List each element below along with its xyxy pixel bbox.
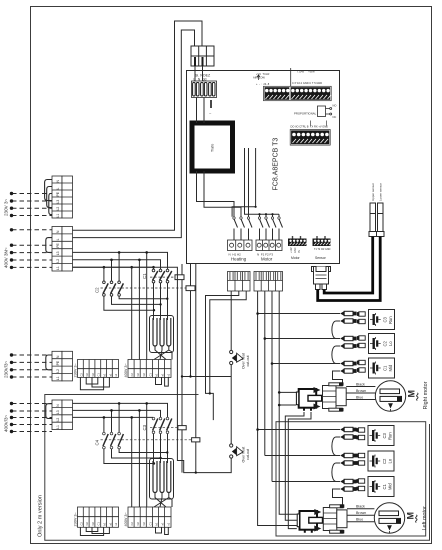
strip label divider [290,68,292,86]
svg-text:Run: Run [388,316,393,324]
svg-text:Right motor: Right motor [423,381,429,409]
strip cell labels [79,373,170,377]
spade C3L a [336,427,357,432]
svg-text:PROPORTIONAL: PROPORTIONAL [294,112,317,116]
svg-text:GND: GND [294,247,297,253]
sensor connector P3 [312,267,331,290]
svg-text:cut-out: cut-out [246,449,250,460]
jumper bracket X2 [46,238,52,253]
wire motor leads right [346,387,375,400]
connector left motor [297,504,347,533]
motor M1 right [375,381,405,411]
wire connR pins to connL [285,412,304,520]
wire branch C2L [265,455,336,457]
svg-text:L1: L1 [56,425,60,429]
plug heating [228,272,251,292]
heater element E1 [150,316,174,353]
capacitor box C3L Run [356,426,394,446]
svg-text:C1: C1 [97,373,101,377]
wire bus N [258,291,297,526]
fuse slots [193,83,215,97]
svg-text:Over heat: Over heat [242,447,246,463]
spade C3R b [336,319,357,324]
svg-text:C1: C1 [142,273,147,279]
svg-text:C1: C1 [382,483,387,489]
svg-text:NC: NC [333,115,337,119]
comb connector Sensor small [313,239,331,247]
wire heater1 X crossing [154,347,172,360]
svg-text:T.S/W +S/W: T.S/W +S/W [297,70,315,74]
wire fuse feeds [195,66,203,81]
wire C4 stairs to heater2 [104,449,167,464]
svg-text:C1: C1 [148,522,152,526]
svg-text:C3: C3 [382,432,387,438]
relay contacts PCB (heating group) [234,219,252,240]
svg-text:C2: C2 [79,373,83,377]
svg-text:C P 10.2 GND C T 5 GND: C P 10.2 GND C T 5 GND [292,81,322,85]
svg-text:DO I/O CTRL B TX RX +V GND: DO I/O CTRL B TX RX +V GND [291,125,329,129]
svg-text:C2: C2 [95,287,100,293]
wire sensor upper thick [324,237,373,294]
transformer T1 [192,123,233,171]
svg-text:Black: Black [356,505,365,509]
capacitor box C3 Run [357,310,395,330]
230V 3~ input wires [12,194,52,216]
wire C1L b to connL [333,489,343,507]
wire branch C3R [258,313,336,315]
svg-text:230V 3~: 230V 3~ [4,198,9,216]
svg-text:L2: L2 [56,369,60,373]
svg-text:230V 3~: 230V 3~ [74,511,78,526]
coil C3 [178,426,186,430]
terminal strip TS3 [290,130,330,146]
svg-text:L3: L3 [56,251,60,255]
svg-text:230V/3~: 230V/3~ [4,360,9,378]
dashed linkage C3 [150,427,178,429]
svg-text:Lower sensor: Lower sensor [379,183,383,201]
wire C1R b to connR [333,371,343,384]
svg-text:400V 3~: 400V 3~ [124,511,128,526]
svg-text:L: L [56,188,60,190]
svg-text:L2: L2 [56,418,60,422]
terminal block X2 (400V 3N~) [46,227,73,272]
wire bus F1 [264,291,266,456]
PCB outline [187,71,340,264]
svg-text:400V/3~: 400V/3~ [4,414,9,432]
wire C2 stairs to heater1 [104,296,167,310]
wire sensor break stub [210,100,212,108]
contactor C4 contacts [103,434,123,446]
svg-text:Mid: Mid [388,364,393,371]
wire C4 coil rail [195,264,197,473]
svg-text:L3: L3 [56,200,60,204]
svg-text:Lo: Lo [388,341,393,346]
contactor C3 contacts [153,419,172,431]
wire C2 feed drops [104,252,119,281]
dashed linkage C2 [101,287,186,289]
svg-text:Run: Run [388,432,393,440]
svg-text:Black: Black [356,382,365,386]
svg-text:C2: C2 [130,522,134,526]
plug motor [254,272,283,292]
spade C3L b [336,435,357,440]
wire PE rail [73,264,247,473]
svg-text:N2: N2 [85,522,89,526]
overheat cutout S3 [230,444,243,458]
svg-text:C2: C2 [79,522,83,526]
wire N rail [73,21,203,230]
jumper brackets X1 [45,180,52,201]
connector K1 pins [195,57,203,66]
svg-text:Blue: Blue [356,395,363,399]
micro text under combs [290,247,331,253]
svg-text:C2: C2 [130,373,134,377]
PCB micro labels row 1 [253,70,322,87]
svg-text:Left motor: Left motor [422,506,428,530]
spade C3R a [336,311,357,316]
spade C2R a [336,336,357,341]
wire loop C2L-C1L [332,463,336,482]
coil C4 [192,438,200,442]
wire loop C3R-C2R [332,321,336,339]
svg-text:M: M [407,390,417,398]
proportional switch S1 [318,106,332,117]
heater element E2 [150,459,174,500]
strip B terminals [128,360,171,378]
svg-text:Brown: Brown [356,511,366,515]
wire trafo primary [197,98,205,124]
wire bus F3 [279,291,297,514]
svg-text:+12V: +12V [290,247,293,253]
wire branch connR1 [279,391,296,393]
400V 3N~ input wires [12,230,52,268]
svg-text:N2: N2 [91,522,95,526]
svg-text:+ - : 24..8: + - : 24..8 [256,82,270,86]
capacitor box C2 Lo [357,334,395,354]
spade C2L b [336,461,357,466]
coil C2 [186,286,195,291]
svg-text:N2: N2 [85,373,89,377]
wire block4 phases to C3/C4/stripB2 [73,403,168,507]
svg-text:T1 T2 CR GND: T1 T2 CR GND [314,248,331,251]
strip A2 terminals [78,507,119,527]
svg-text:Lo: Lo [388,458,393,463]
svg-text:C2: C2 [383,340,388,346]
svg-text:PE: PE [56,243,60,248]
wire C3 to heater2 [154,434,168,463]
spade C1R b [336,369,357,374]
wire overheat line [230,291,232,444]
svg-text:N2: N2 [142,522,146,526]
relay contacts PCB (motor group) [260,219,283,240]
capacitor box C1 Mid [357,358,395,378]
spade C1L b [336,487,357,492]
svg-text:M: M [406,512,416,520]
svg-text:C1: C1 [97,522,101,526]
svg-text:C3: C3 [383,316,388,322]
svg-text:PE: PE [56,191,60,196]
svg-text:Only 2 m version: Only 2 m version [38,495,44,537]
plug heating pins [230,272,248,280]
svg-text:N2: N2 [136,522,140,526]
left motor box [276,422,426,536]
svg-text:Upper sensor: Upper sensor [371,183,375,201]
wire C1/C3 coil rail [181,264,183,473]
strip B2 terminals [128,507,171,527]
wire bus F2 [271,291,273,482]
strip B jumper loops [156,377,169,386]
spade C2L a [336,453,357,458]
terminal block X4 (400V/3~) [46,400,73,430]
wire heater2 X crossing [154,493,172,507]
230V/3~ input wires (2m) [12,355,52,377]
svg-text:N2: N2 [91,373,95,377]
svg-text:C4: C4 [95,439,100,445]
fuse block F1 [192,81,217,98]
strip2 cell labels [79,522,170,526]
connector K1 3x2 [191,46,214,66]
spade C1L a [336,479,357,484]
svg-text:N2: N2 [142,373,146,377]
wire branch C1L [272,481,336,483]
svg-text:C1: C1 [383,365,388,371]
svg-text:400V 3~: 400V 3~ [124,362,128,377]
svg-text:Brown: Brown [356,389,366,393]
wire plug H1 stair [206,291,239,420]
wire strip B drops [132,252,147,359]
dashed linkage C4 [101,439,192,441]
coil C1 [175,275,184,280]
svg-text:L3: L3 [56,410,60,414]
dashed linkage C1 [150,276,175,278]
sensor probe upper [369,203,377,237]
wire strip B2 drops [132,403,147,507]
spade C2R b [336,344,357,349]
wire plug H2 stair [210,291,246,393]
wire branch C3L [258,429,336,431]
contactor C1 contacts [153,271,172,280]
strip A2 jumper loops [80,527,109,535]
terminal block Heating [228,240,253,251]
capacitor box C2L Lo [356,451,394,471]
svg-text:Heating: Heating [231,257,247,262]
svg-text:Motor: Motor [261,257,273,262]
strip A terminals [78,360,119,378]
input wire dots [10,192,13,433]
svg-text:C3: C3 [142,424,147,430]
wire trafo to relays [197,148,280,217]
svg-text:L2: L2 [56,259,60,263]
svg-text:Sensor: Sensor [315,256,327,260]
wire loop C2R-C1R [332,346,336,364]
terminal cell labels [56,180,60,429]
arrow up icon [257,75,260,80]
svg-text:cut-out: cut-out [246,356,250,367]
connector right motor [296,382,346,411]
svg-text:230V 3~: 230V 3~ [74,362,78,377]
svg-text:N2: N2 [136,373,140,377]
svg-text:C2: C2 [382,458,387,464]
overheat cutout S2 [230,350,243,364]
400V/3~ input wires (2m) [12,404,52,432]
terminal strip TS1 [264,86,332,100]
wire loop C3L-C2L [332,437,336,456]
svg-text:L2: L2 [56,207,60,211]
2m version box [45,395,430,541]
contactor C2 contacts [103,283,123,293]
comb connector Motor small [288,239,307,247]
svg-text:L1: L1 [56,214,60,218]
svg-text:L1: L1 [56,376,60,380]
svg-text:Mid: Mid [388,483,393,490]
svg-text:Trafo: Trafo [211,144,215,152]
svg-text:L: L [56,238,60,240]
motor M2 left [374,503,404,533]
terminal block Motor [256,240,282,251]
svg-text:C1: C1 [148,373,152,377]
spade C1R a [336,361,357,366]
wire branch connR2 [279,404,296,406]
svg-text:400V 3N~: 400V 3N~ [4,247,9,268]
wire block2 phases to C1/C2/stripB [73,252,168,359]
wire branch C2R [265,338,336,340]
sensor probe lower [377,203,385,237]
plug motor pins [256,272,281,280]
wire C2 coil rail [190,264,192,377]
capacitor box C1L Mid [356,477,394,497]
wire L rail [73,30,195,238]
wire C4 feed drops [104,403,119,432]
svg-text:L1: L1 [56,266,60,270]
terminal block X3 (230V/3~) [46,351,73,381]
svg-text:Over heat: Over heat [242,353,246,369]
svg-text:Motor: Motor [291,256,301,260]
svg-text:PE: PE [56,360,60,365]
svg-text:Blue: Blue [356,518,363,522]
strip B2 jumper loops [156,527,169,534]
strip A jumper loops [80,377,109,389]
wire sensor lower thick [318,237,381,301]
svg-text:NO: NO [333,104,337,108]
wire C1 to heater1 [154,283,168,320]
wire motor leads left [347,509,374,522]
svg-text:FC8.A8EPCB T3: FC8.A8EPCB T3 [273,138,280,191]
wire branch C1R [272,363,336,365]
